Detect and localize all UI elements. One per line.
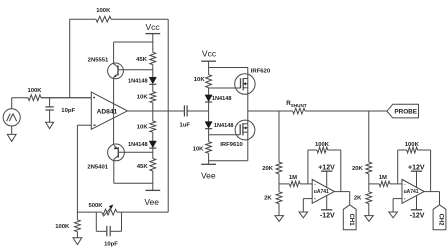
wire feedback top xyxy=(70,18,96,20)
wire IRF9610 gate xyxy=(209,134,241,136)
wire noninv to ground CH1 xyxy=(303,198,312,200)
svg-text:10pF: 10pF xyxy=(104,242,118,248)
wire output CH1 xyxy=(334,191,349,193)
svg-text:PROBE: PROBE xyxy=(394,109,417,116)
wire divider mid CH2 xyxy=(368,174,370,192)
svg-text:20K: 20K xyxy=(352,166,364,172)
svg-text:1N4148: 1N4148 xyxy=(212,96,232,102)
svg-text:SHUNT: SHUNT xyxy=(291,103,307,108)
svg-text:Vee: Vee xyxy=(144,197,159,207)
resistor 10K lower left xyxy=(150,121,156,132)
svg-text:Vee: Vee xyxy=(201,170,216,180)
svg-text:10K: 10K xyxy=(193,146,205,152)
wire D4 to gate 9610 xyxy=(208,128,210,134)
wire node Q2 base xyxy=(152,148,154,158)
svg-text:100K: 100K xyxy=(405,142,420,148)
wire feedback left vertical xyxy=(69,19,71,98)
wire inv input AD841 xyxy=(77,124,91,126)
svg-text:2N5551: 2N5551 xyxy=(88,58,109,64)
resistor 2K CH2 xyxy=(366,192,372,204)
wire IRF9610 source bottom xyxy=(209,160,248,162)
capacitor 10pF compensation xyxy=(95,212,97,231)
wire collector Q2 to Vee xyxy=(114,182,153,184)
resistor 10K upper left xyxy=(150,92,156,103)
transistor Q1 2N5551 xyxy=(108,63,124,79)
wire 10K to output xyxy=(152,103,154,111)
wire shunt to probe xyxy=(305,110,387,112)
diode D1 1N4148 xyxy=(149,77,156,84)
resistor 100K input xyxy=(28,95,41,101)
svg-text:10K: 10K xyxy=(194,77,206,83)
svg-text:10K: 10K xyxy=(137,125,149,131)
svg-text:1N4148: 1N4148 xyxy=(128,142,148,148)
wire emitter rail through op-amp xyxy=(113,78,115,145)
wire feedback right vertical xyxy=(167,19,169,212)
wire 2K to ground CH1 xyxy=(278,204,280,216)
svg-text:1N4148: 1N4148 xyxy=(214,123,234,129)
wire input node xyxy=(12,97,28,99)
wire 1M to opamp CH2 xyxy=(390,183,402,185)
wire 1M to opamp CH1 xyxy=(300,183,312,185)
wire divider mid CH1 xyxy=(278,174,280,192)
resistor 45K lower xyxy=(150,159,156,172)
svg-text:100K: 100K xyxy=(315,142,330,148)
power -12V CH1 xyxy=(326,196,328,210)
wire node Q1 base xyxy=(152,65,154,78)
wire bottom feedback xyxy=(77,211,101,213)
potentiometer 500K xyxy=(102,209,117,215)
wire output node xyxy=(248,110,293,112)
resistor 100K feedback CH1 xyxy=(307,150,309,184)
flag CH1 xyxy=(343,205,356,230)
wire divider drop CH2 xyxy=(368,111,370,162)
svg-text:45K: 45K xyxy=(136,57,148,63)
wire 2K to ground CH2 xyxy=(368,204,370,216)
resistor 1M CH2 xyxy=(379,181,390,186)
svg-text:10pF: 10pF xyxy=(61,108,75,114)
op-amp U1 AD841 xyxy=(91,92,127,129)
svg-text:-12V: -12V xyxy=(410,212,425,219)
svg-text:1N4148: 1N4148 xyxy=(128,78,148,84)
resistor RSHUNT xyxy=(293,108,305,114)
capacitor 1uF xyxy=(183,105,185,116)
svg-text:45K: 45K xyxy=(137,164,149,170)
svg-text:uA741: uA741 xyxy=(404,189,419,195)
power Vee right xyxy=(201,163,216,165)
svg-text:100K: 100K xyxy=(96,8,111,14)
ground below 10pF xyxy=(46,122,54,129)
ground divider CH1 xyxy=(275,216,284,222)
wire divider to 1M CH1 xyxy=(279,183,289,185)
power Vee left xyxy=(145,189,160,191)
ground noninv CH1 xyxy=(299,212,308,218)
resistor 45K upper xyxy=(150,52,156,64)
resistor 1M CH1 xyxy=(289,181,300,186)
svg-text:uA741: uA741 xyxy=(314,189,329,195)
capacitor 10pF input xyxy=(49,98,51,107)
flag CH2 xyxy=(433,205,446,230)
wire 10K to D3 xyxy=(208,88,210,95)
wire AD841 output xyxy=(127,110,184,112)
resistor 100K feedback xyxy=(96,16,111,22)
mosfet M1 IRF620 xyxy=(235,74,255,94)
diode D3 1N4148 xyxy=(205,95,212,102)
wire 10K to D2 xyxy=(152,132,154,141)
mosfet M2 IRF9610 xyxy=(235,120,255,140)
svg-text:500K: 500K xyxy=(88,203,103,209)
svg-text:IRF620: IRF620 xyxy=(251,68,271,74)
wire node to D4 xyxy=(208,111,210,122)
resistor 20K CH2 xyxy=(366,162,372,174)
svg-text:1M: 1M xyxy=(289,175,297,181)
svg-text:IRF9610: IRF9610 xyxy=(220,142,243,148)
ground below source xyxy=(7,134,16,141)
op-amp uA741 CH2 xyxy=(402,179,424,203)
wire to Vee right xyxy=(208,135,210,142)
wire IRF620 drain xyxy=(209,67,248,69)
wire collector Q1 to Vcc xyxy=(114,41,153,43)
resistor 20K CH1 xyxy=(276,162,282,174)
svg-text:CH1: CH1 xyxy=(348,214,354,227)
wire noninv to ground CH2 xyxy=(393,198,402,200)
svg-text:2K: 2K xyxy=(354,196,362,202)
svg-text:2K: 2K xyxy=(264,196,272,202)
svg-text:CH2: CH2 xyxy=(438,214,444,227)
resistor 2K CH1 xyxy=(276,192,282,204)
svg-text:100K: 100K xyxy=(27,88,42,94)
diode D2 1N4148 xyxy=(149,141,156,148)
transistor Q2 2N5401 xyxy=(108,144,125,161)
power -12V CH2 xyxy=(416,196,418,210)
resistor 10K gate upper xyxy=(206,75,212,88)
wire divider drop CH1 xyxy=(278,111,280,162)
resistor 100K to ground xyxy=(76,212,78,220)
svg-text:1M: 1M xyxy=(379,175,387,181)
resistor 100K feedback CH2 xyxy=(397,150,399,184)
svg-text:100K: 100K xyxy=(55,224,70,230)
flag PROBE xyxy=(387,104,419,118)
wire output CH2 xyxy=(424,191,439,193)
svg-text:Vcc: Vcc xyxy=(202,48,217,58)
svg-text:1uF: 1uF xyxy=(180,122,191,128)
wire divider to 1M CH2 xyxy=(369,183,379,185)
ground below 100K xyxy=(73,238,82,245)
wire output to 10K lower xyxy=(152,111,154,121)
svg-text:-12V: -12V xyxy=(320,212,335,219)
svg-text:Vcc: Vcc xyxy=(146,22,161,32)
ground divider CH2 xyxy=(365,216,374,222)
ground noninv CH2 xyxy=(389,212,398,218)
wire D3 to node xyxy=(208,102,210,111)
resistor 10K gate lower xyxy=(206,142,212,154)
wire D1 to 10K xyxy=(152,84,154,91)
wire 45K to Vee xyxy=(152,171,154,190)
svg-text:AD841: AD841 xyxy=(97,108,118,115)
wire noninv input AD841 xyxy=(41,97,91,99)
wire IRF620 gate xyxy=(209,87,241,89)
signal source V1 xyxy=(3,109,20,126)
diode D4 1N4148 xyxy=(205,122,212,129)
svg-text:20K: 20K xyxy=(262,166,274,172)
svg-text:2N5401: 2N5401 xyxy=(87,164,108,170)
op-amp uA741 CH1 xyxy=(312,179,334,203)
svg-text:10K: 10K xyxy=(137,95,149,101)
